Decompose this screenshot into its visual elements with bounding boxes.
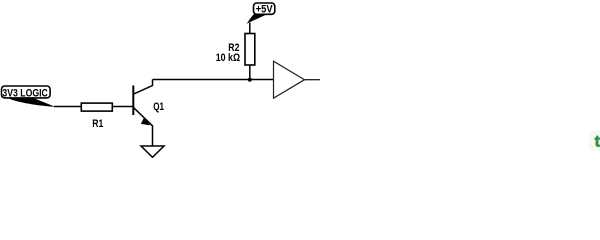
ground bbox=[141, 146, 164, 157]
wire collector rail bbox=[153, 79, 274, 81]
transistor Q1 bbox=[133, 80, 164, 147]
resistor R1 bbox=[81, 103, 112, 130]
wire buffer output bbox=[305, 79, 321, 81]
buffer U1 bbox=[274, 61, 305, 98]
svg-text:Q1: Q1 bbox=[153, 101, 164, 113]
svg-text:10 kΩ: 10 kΩ bbox=[216, 52, 241, 64]
net label 3V3 LOGIC bbox=[2, 86, 51, 100]
resistor R2 bbox=[216, 34, 255, 66]
wire base right bbox=[113, 106, 133, 108]
watermark t bbox=[589, 131, 600, 152]
svg-text:t: t bbox=[595, 134, 600, 151]
wire base left bbox=[54, 106, 81, 108]
power label +5V bbox=[254, 3, 275, 15]
svg-text:R1: R1 bbox=[92, 118, 103, 130]
power label pointer bbox=[247, 14, 266, 24]
node junction bbox=[248, 78, 252, 82]
svg-text:+5V: +5V bbox=[256, 3, 273, 15]
wire R2 top bbox=[249, 23, 251, 34]
net label pointer bbox=[7, 98, 56, 107]
wire R2 bottom bbox=[249, 65, 251, 80]
